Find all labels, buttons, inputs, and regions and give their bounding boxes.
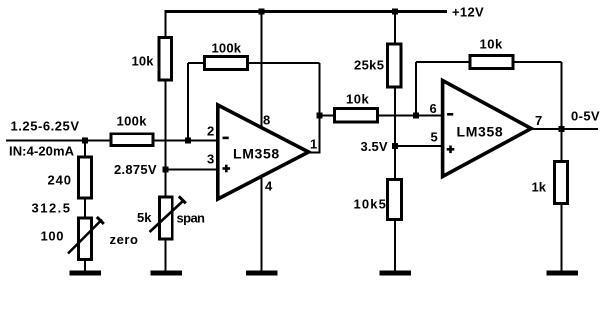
- wire pin 8 drop from rail: [260, 11, 262, 129]
- op-amp U2 LM358: [443, 81, 532, 177]
- minus sign op-amp2: [447, 113, 453, 116]
- svg-text:8: 8: [263, 113, 270, 128]
- wire pin 3 row: [166, 168, 218, 170]
- potentiometer 100 arrow: [68, 220, 102, 254]
- minus sign op-amp1: [223, 137, 229, 140]
- resistor 25k5: [388, 44, 401, 87]
- svg-text:312.5: 312.5: [32, 201, 71, 216]
- svg-text:1k: 1k: [532, 180, 547, 195]
- wire rail left drop to R 10k: [164, 11, 166, 39]
- wire feedback tap at pin 2: [187, 63, 189, 141]
- wire feedback2 row right of R 10k: [512, 61, 562, 63]
- svg-text:IN:4-20mA: IN:4-20mA: [9, 144, 75, 159]
- svg-text:100: 100: [41, 229, 64, 244]
- ground (input divider): [70, 271, 102, 276]
- svg-text:10k: 10k: [480, 37, 503, 52]
- potentiometer 5k arrow: [150, 201, 184, 233]
- node dot rail 25k5: [392, 8, 398, 14]
- wire 10k bottom to 2.875V node and 5k top: [164, 79, 166, 198]
- wire pot 100 to ground: [84, 259, 86, 272]
- resistor 10k (feedback op-amp2): [470, 56, 513, 69]
- svg-text:+12V: +12V: [452, 5, 484, 20]
- wire R 10k mid to pin 6: [377, 114, 443, 116]
- wire 5k pot to ground: [164, 238, 166, 272]
- potentiometer 5k body: [159, 197, 172, 239]
- potentiometer 100 body: [79, 218, 92, 260]
- wire R240 to pot 100: [84, 197, 86, 219]
- svg-text:4: 4: [265, 179, 273, 194]
- svg-text:6: 6: [430, 101, 437, 116]
- wire 25k5 to 10k5: [394, 86, 396, 181]
- node dot 2.875V: [162, 166, 168, 172]
- node dot rail pin8: [258, 8, 264, 14]
- wire pin6 node up: [415, 62, 417, 117]
- resistor 10k (mid): [335, 109, 378, 122]
- svg-text:240: 240: [48, 173, 72, 188]
- wire feedback row right of R 100k: [247, 62, 320, 64]
- node dot input/240: [82, 137, 88, 143]
- wire node to R 10k mid: [320, 114, 336, 116]
- svg-text:1.25-6.25V: 1.25-6.25V: [11, 119, 80, 134]
- svg-text:2.875V: 2.875V: [114, 162, 157, 177]
- wire feedback2 row left of R 10k: [416, 61, 471, 63]
- node dot output1 junction: [316, 112, 322, 118]
- wire rail drop to R 25k5: [394, 11, 396, 46]
- resistor 10k5: [388, 180, 402, 220]
- node dot pin2 feedback tap: [185, 137, 191, 143]
- svg-text:100k: 100k: [212, 41, 242, 56]
- svg-text:10k: 10k: [132, 54, 155, 69]
- svg-text:100k: 100k: [117, 114, 148, 129]
- svg-text:5k: 5k: [137, 210, 152, 225]
- ground (5k pot): [150, 271, 182, 276]
- svg-text:span: span: [177, 211, 206, 226]
- wire input node down to R 240: [84, 141, 86, 159]
- plus sign op-amp1: [223, 165, 231, 173]
- svg-text:zero: zero: [110, 232, 139, 247]
- wire feedback row left of R 100k: [188, 62, 206, 64]
- op-amp U1 LM358: [218, 105, 309, 199]
- ground (1k): [546, 271, 578, 276]
- svg-text:1: 1: [310, 137, 317, 152]
- svg-text:0-5V: 0-5V: [571, 109, 600, 124]
- resistor 1k: [555, 162, 568, 204]
- svg-text:LM358: LM358: [457, 124, 503, 140]
- node dot output2: [558, 126, 564, 132]
- node dot pin6: [413, 112, 419, 118]
- svg-text:LM358: LM358: [233, 146, 279, 162]
- svg-text:5: 5: [431, 130, 438, 145]
- resistor 100k (input): [111, 134, 153, 146]
- svg-text:25k5: 25k5: [354, 58, 384, 73]
- wire 10k5 to ground: [394, 219, 396, 272]
- resistor 240: [79, 157, 92, 198]
- svg-text:3: 3: [207, 152, 214, 167]
- wire input row: [6, 139, 217, 141]
- wire pin 5 row: [395, 145, 442, 147]
- svg-text:10k5: 10k5: [354, 197, 386, 212]
- wire +12V top rail: [164, 10, 447, 13]
- svg-text:7: 7: [535, 113, 542, 128]
- ground (pin 4): [246, 271, 278, 276]
- svg-text:2: 2: [207, 124, 214, 139]
- wire pin 4 drop to ground: [260, 176, 262, 272]
- wire output node to R 1k: [560, 129, 562, 163]
- ground (10k5): [379, 271, 411, 276]
- plus sign op-amp2: [447, 146, 455, 154]
- svg-text:3.5V: 3.5V: [361, 139, 388, 154]
- resistor 10k (left vertical): [159, 38, 172, 81]
- wire feedback right drop to output node: [318, 63, 320, 153]
- svg-text:10k: 10k: [346, 92, 369, 107]
- resistor 100k (feedback op-amp1): [205, 57, 248, 70]
- wire R 1k to ground: [560, 203, 562, 272]
- wire op-amp1 output stub: [306, 151, 321, 153]
- node dot 3.5V: [392, 143, 398, 149]
- wire output row 0-5V: [530, 128, 598, 130]
- wire feedback2 drop to output: [560, 62, 562, 129]
